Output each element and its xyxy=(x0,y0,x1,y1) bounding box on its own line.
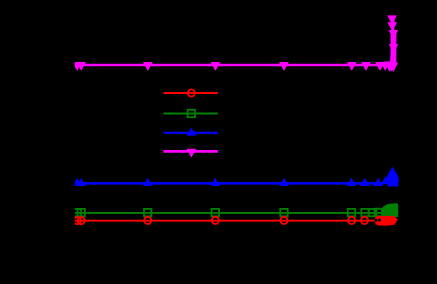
green series markers xyxy=(74,209,382,217)
green series line xyxy=(75,208,399,213)
blue series markers xyxy=(72,167,401,186)
red cluster band xyxy=(374,216,397,226)
legend entry green: sample line and square marker xyxy=(163,110,217,117)
red series markers xyxy=(74,217,369,224)
legend entry red: sample line and circle marker xyxy=(163,89,217,96)
legend entry magenta: sample line and down-triangle marker xyxy=(163,149,217,158)
magenta series line xyxy=(75,18,396,70)
green cluster block xyxy=(381,203,398,217)
red series line xyxy=(75,217,397,220)
magenta series markers xyxy=(72,15,398,71)
blue series line xyxy=(75,168,398,186)
legend entry blue: sample line and up-triangle marker xyxy=(163,128,217,136)
